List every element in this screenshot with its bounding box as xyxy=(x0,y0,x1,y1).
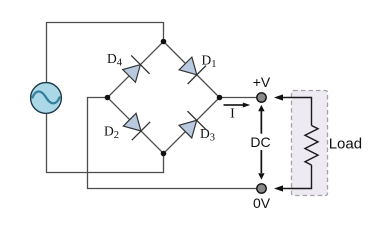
svg-text:D4: D4 xyxy=(107,51,123,69)
svg-text:D2: D2 xyxy=(104,124,119,142)
svg-text:+V: +V xyxy=(253,74,271,90)
svg-text:Load: Load xyxy=(329,136,362,153)
svg-text:D1: D1 xyxy=(202,53,217,71)
svg-text:DC: DC xyxy=(250,134,270,150)
svg-text:D3: D3 xyxy=(200,126,215,144)
svg-text:0V: 0V xyxy=(253,195,271,211)
svg-text:I: I xyxy=(230,107,235,122)
